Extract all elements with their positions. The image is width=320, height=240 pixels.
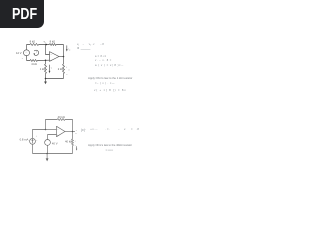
svg-text:+: + bbox=[50, 59, 52, 62]
resistor R3 4k bbox=[30, 60, 37, 62]
wire top rail bbox=[27, 44, 64, 46]
svg-text:−: − bbox=[50, 54, 52, 57]
resistor R5 2k bbox=[63, 64, 65, 74]
svg-text:−: − bbox=[57, 129, 59, 132]
wire bottom-left rail bbox=[27, 59, 50, 61]
load current arrow bbox=[76, 146, 78, 149]
op-amp U2 bbox=[57, 126, 66, 136]
wire vx to inverting input bbox=[46, 45, 50, 55]
svg-text:1 kΩ: 1 kΩ bbox=[40, 67, 46, 71]
svg-text:+: + bbox=[25, 51, 27, 53]
node inverting junction bbox=[45, 129, 47, 131]
resistor R4 1k bbox=[45, 61, 47, 79]
svg-text:40 kΩ: 40 kΩ bbox=[65, 139, 72, 143]
wire opamp output bbox=[59, 56, 64, 58]
PDF badge bbox=[0, 0, 44, 28]
resistor R7 40k load bbox=[72, 132, 74, 154]
svg-text:v: v bbox=[51, 68, 53, 70]
op-amp U1 bbox=[50, 52, 60, 62]
svg-text:2 kΩ: 2 kΩ bbox=[58, 67, 64, 71]
wire left branch bbox=[33, 130, 46, 154]
resistor R2 8k feedback bbox=[49, 44, 56, 46]
svg-text:−: − bbox=[66, 74, 68, 77]
svg-text:+: + bbox=[36, 136, 38, 138]
svg-text:+: + bbox=[76, 130, 78, 132]
ground 2 bbox=[46, 153, 48, 155]
voltage source VS1 12V bbox=[24, 45, 30, 61]
voltage source VS2 40V bbox=[45, 140, 51, 154]
resistor R1 8k bbox=[30, 44, 39, 46]
svg-text:0.8 mA: 0.8 mA bbox=[20, 138, 29, 142]
mesh current arrow bbox=[34, 50, 39, 55]
svg-text:v: v bbox=[36, 51, 38, 53]
node output bbox=[63, 56, 65, 58]
current arrow beside R4 bbox=[49, 65, 51, 72]
svg-text:4 kΩ: 4 kΩ bbox=[31, 62, 37, 66]
svg-text:+: + bbox=[75, 140, 77, 142]
wire bottom rail bbox=[46, 78, 64, 80]
current source IS1 0.8mA bbox=[30, 138, 36, 144]
svg-text:−: − bbox=[36, 139, 38, 142]
svg-text:40 V: 40 V bbox=[52, 142, 58, 146]
node noninverting bbox=[45, 60, 47, 62]
resistor R6 40k feedback bbox=[57, 119, 65, 121]
node vx bbox=[45, 44, 47, 46]
svg-text:x: x bbox=[44, 42, 46, 44]
svg-text:v: v bbox=[76, 133, 78, 135]
svg-text:+: + bbox=[66, 66, 68, 68]
wire feedback right leg bbox=[63, 45, 65, 65]
svg-text:v: v bbox=[69, 70, 71, 72]
svg-text:40 kΩ: 40 kΩ bbox=[58, 115, 65, 119]
wire inverting input bbox=[46, 129, 57, 131]
svg-text:o: o bbox=[69, 49, 70, 51]
svg-text:8 kΩ: 8 kΩ bbox=[50, 40, 56, 44]
node output2 bbox=[72, 131, 74, 133]
svg-text:8 kΩ: 8 kΩ bbox=[30, 40, 36, 44]
ground bbox=[45, 78, 47, 80]
svg-text:+: + bbox=[22, 58, 24, 60]
output current arrow io bbox=[66, 45, 68, 49]
wire opamp output bbox=[65, 131, 75, 133]
svg-text:12 V: 12 V bbox=[16, 51, 22, 55]
wire noninverting input bbox=[48, 135, 57, 140]
wire feedback left leg bbox=[46, 120, 73, 132]
wire bottom rail 2 bbox=[33, 153, 73, 155]
